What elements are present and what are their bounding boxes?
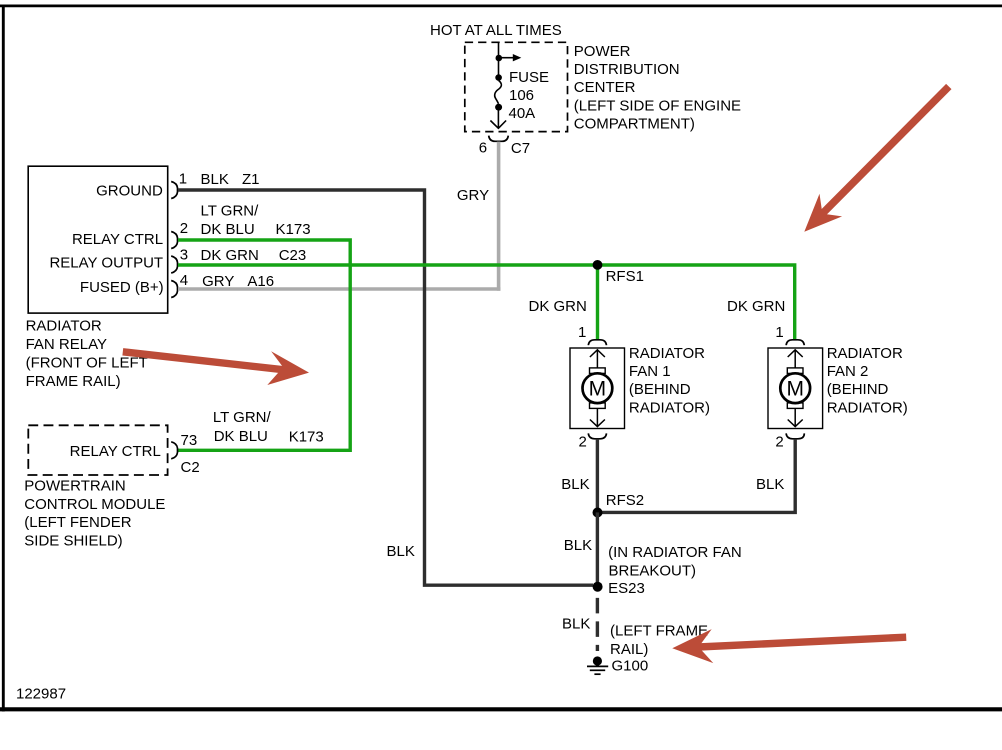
svg-text:LT GRN/: LT GRN/ — [201, 203, 260, 220]
svg-text:(IN RADIATOR FAN: (IN RADIATOR FAN — [608, 544, 742, 561]
svg-text:1: 1 — [775, 324, 783, 341]
svg-text:DK BLU: DK BLU — [201, 221, 255, 238]
svg-text:RADIATOR): RADIATOR) — [629, 399, 710, 416]
wire BLK fan1 to RFS2 — [596, 439, 599, 513]
svg-text:RFS1: RFS1 — [606, 268, 644, 285]
svg-text:C23: C23 — [279, 247, 307, 264]
svg-text:FAN 1: FAN 1 — [629, 363, 671, 380]
svg-text:BLK: BLK — [756, 476, 784, 493]
svg-text:RFS2: RFS2 — [606, 492, 644, 509]
svg-text:1: 1 — [578, 324, 586, 341]
svg-text:FAN RELAY: FAN RELAY — [26, 336, 107, 353]
svg-text:C2: C2 — [181, 459, 200, 476]
svg-text:C7: C7 — [511, 140, 530, 157]
node dot mid — [495, 74, 502, 81]
powertrain control module dashed box — [28, 425, 167, 475]
wire K173: relay pin2 to PCM — [178, 240, 350, 450]
radiator fan 2 motor box — [768, 348, 823, 429]
wire BLK Z1: relay pin1 to ES23 — [178, 190, 593, 585]
svg-text:K173: K173 — [276, 221, 311, 238]
svg-text:RADIATOR: RADIATOR — [629, 345, 705, 362]
svg-text:ES23: ES23 — [608, 580, 645, 597]
svg-text:40A: 40A — [509, 105, 536, 122]
svg-text:DK GRN: DK GRN — [201, 247, 259, 264]
relay pin 3 connector — [171, 256, 177, 273]
svg-text:SIDE SHIELD): SIDE SHIELD) — [24, 533, 122, 550]
svg-text:6: 6 — [479, 140, 487, 157]
svg-text:FUSE: FUSE — [509, 69, 549, 86]
svg-text:RELAY CTRL: RELAY CTRL — [72, 231, 163, 248]
fuse output down arrow — [490, 107, 506, 128]
fan1 pin2 connector — [588, 433, 606, 438]
relay pin 4 connector — [171, 281, 177, 298]
svg-text:RELAY CTRL: RELAY CTRL — [70, 443, 161, 460]
splice node ES23 — [593, 582, 603, 592]
svg-text:(BEHIND: (BEHIND — [629, 381, 691, 398]
fan 2 motor symbol — [780, 350, 810, 427]
splice node RFS2 — [593, 508, 603, 518]
svg-text:(LEFT SIDE OF ENGINE: (LEFT SIDE OF ENGINE — [574, 97, 741, 114]
fan 1 motor symbol — [583, 350, 613, 427]
node dot top — [496, 55, 503, 62]
svg-text:BLK: BLK — [387, 543, 415, 560]
power distribution center dashed box — [465, 42, 568, 131]
svg-text:RAIL): RAIL) — [610, 641, 648, 658]
svg-text:BLK: BLK — [564, 537, 592, 554]
fuse F106 feed wire — [498, 43, 500, 79]
svg-text:M: M — [786, 378, 804, 401]
svg-text:3: 3 — [180, 247, 188, 264]
fan2 pin1 connector — [786, 340, 804, 345]
svg-text:CENTER: CENTER — [574, 79, 636, 96]
svg-text:4: 4 — [180, 272, 188, 289]
svg-text:FAN 2: FAN 2 — [827, 363, 869, 380]
svg-text:M: M — [589, 378, 607, 401]
svg-text:POWERTRAIN: POWERTRAIN — [24, 478, 125, 495]
svg-text:RADIATOR: RADIATOR — [26, 318, 102, 335]
radiator fan relay box — [28, 166, 168, 313]
svg-text:LT GRN/: LT GRN/ — [213, 409, 272, 426]
svg-text:GRY: GRY — [457, 187, 489, 204]
svg-text:POWER: POWER — [574, 43, 631, 60]
svg-text:Z1: Z1 — [242, 171, 260, 188]
svg-text:2: 2 — [579, 434, 587, 451]
wire GRY A16: relay pin4 to fuse vertical — [178, 287, 500, 291]
red annotation arrow 3 (bottom right) — [672, 629, 906, 663]
svg-text:106: 106 — [509, 87, 534, 104]
red annotation arrow 1 (top right) — [804, 87, 949, 232]
red annotation arrow 2 (middle left) — [123, 351, 309, 385]
svg-text:73: 73 — [181, 432, 198, 449]
svg-text:DK GRN: DK GRN — [727, 298, 785, 315]
svg-text:BLK: BLK — [562, 616, 590, 633]
svg-text:(FRONT OF LEFT: (FRONT OF LEFT — [26, 355, 148, 372]
fan2 pin2 connector — [786, 433, 804, 438]
svg-text:BLK: BLK — [201, 171, 229, 188]
svg-text:K173: K173 — [289, 428, 324, 445]
radiator fan 1 motor box — [570, 348, 625, 429]
svg-text:2: 2 — [180, 220, 188, 237]
wire BLK dashed to ground — [596, 598, 599, 651]
ground G100 symbol — [587, 656, 608, 674]
svg-text:FUSED (B+): FUSED (B+) — [80, 279, 164, 296]
svg-text:2: 2 — [775, 434, 783, 451]
svg-text:G100: G100 — [612, 658, 649, 675]
svg-text:RADIATOR: RADIATOR — [827, 345, 903, 362]
connector C7 — [489, 136, 509, 142]
svg-text:BLK: BLK — [561, 476, 589, 493]
svg-text:RELAY OUTPUT: RELAY OUTPUT — [49, 254, 163, 271]
svg-text:HOT AT ALL TIMES: HOT AT ALL TIMES — [430, 22, 562, 39]
relay pin 1 connector — [171, 182, 177, 199]
node dot bottom — [495, 104, 502, 111]
relay pin 2 connector — [171, 232, 177, 249]
svg-text:CONTROL MODULE: CONTROL MODULE — [24, 496, 165, 513]
svg-text:DK BLU: DK BLU — [214, 428, 268, 445]
PCM pin 73 connector — [171, 442, 177, 459]
svg-text:DK GRN: DK GRN — [529, 298, 587, 315]
svg-text:1: 1 — [179, 171, 187, 188]
wire DK GRN drop to fan 1 — [596, 265, 599, 341]
wire BLK fan2 to RFS2 — [600, 439, 795, 513]
svg-text:122987: 122987 — [16, 685, 66, 702]
svg-text:A16: A16 — [247, 273, 274, 290]
svg-text:FRAME RAIL): FRAME RAIL) — [26, 373, 121, 390]
svg-text:(LEFT FENDER: (LEFT FENDER — [24, 514, 131, 531]
svg-text:BREAKOUT): BREAKOUT) — [609, 562, 697, 579]
svg-text:DISTRIBUTION: DISTRIBUTION — [574, 61, 680, 78]
svg-text:GROUND: GROUND — [96, 182, 163, 199]
fuse 106 element squiggle — [495, 81, 502, 104]
svg-text:GRY: GRY — [202, 273, 234, 290]
svg-text:COMPARTMENT): COMPARTMENT) — [574, 116, 695, 133]
svg-text:(LEFT FRAME: (LEFT FRAME — [610, 623, 708, 640]
wire BLK RFS2 to ES23 — [596, 512, 599, 586]
wire GRY vertical from C7 — [497, 142, 501, 291]
splice node RFS1 — [593, 260, 603, 270]
branch arrow right — [499, 54, 522, 61]
fan1 pin1 connector — [588, 340, 606, 345]
wire DK GRN C23: relay pin3 to fans — [178, 265, 795, 341]
svg-text:RADIATOR): RADIATOR) — [827, 399, 908, 416]
svg-text:(BEHIND: (BEHIND — [827, 381, 889, 398]
